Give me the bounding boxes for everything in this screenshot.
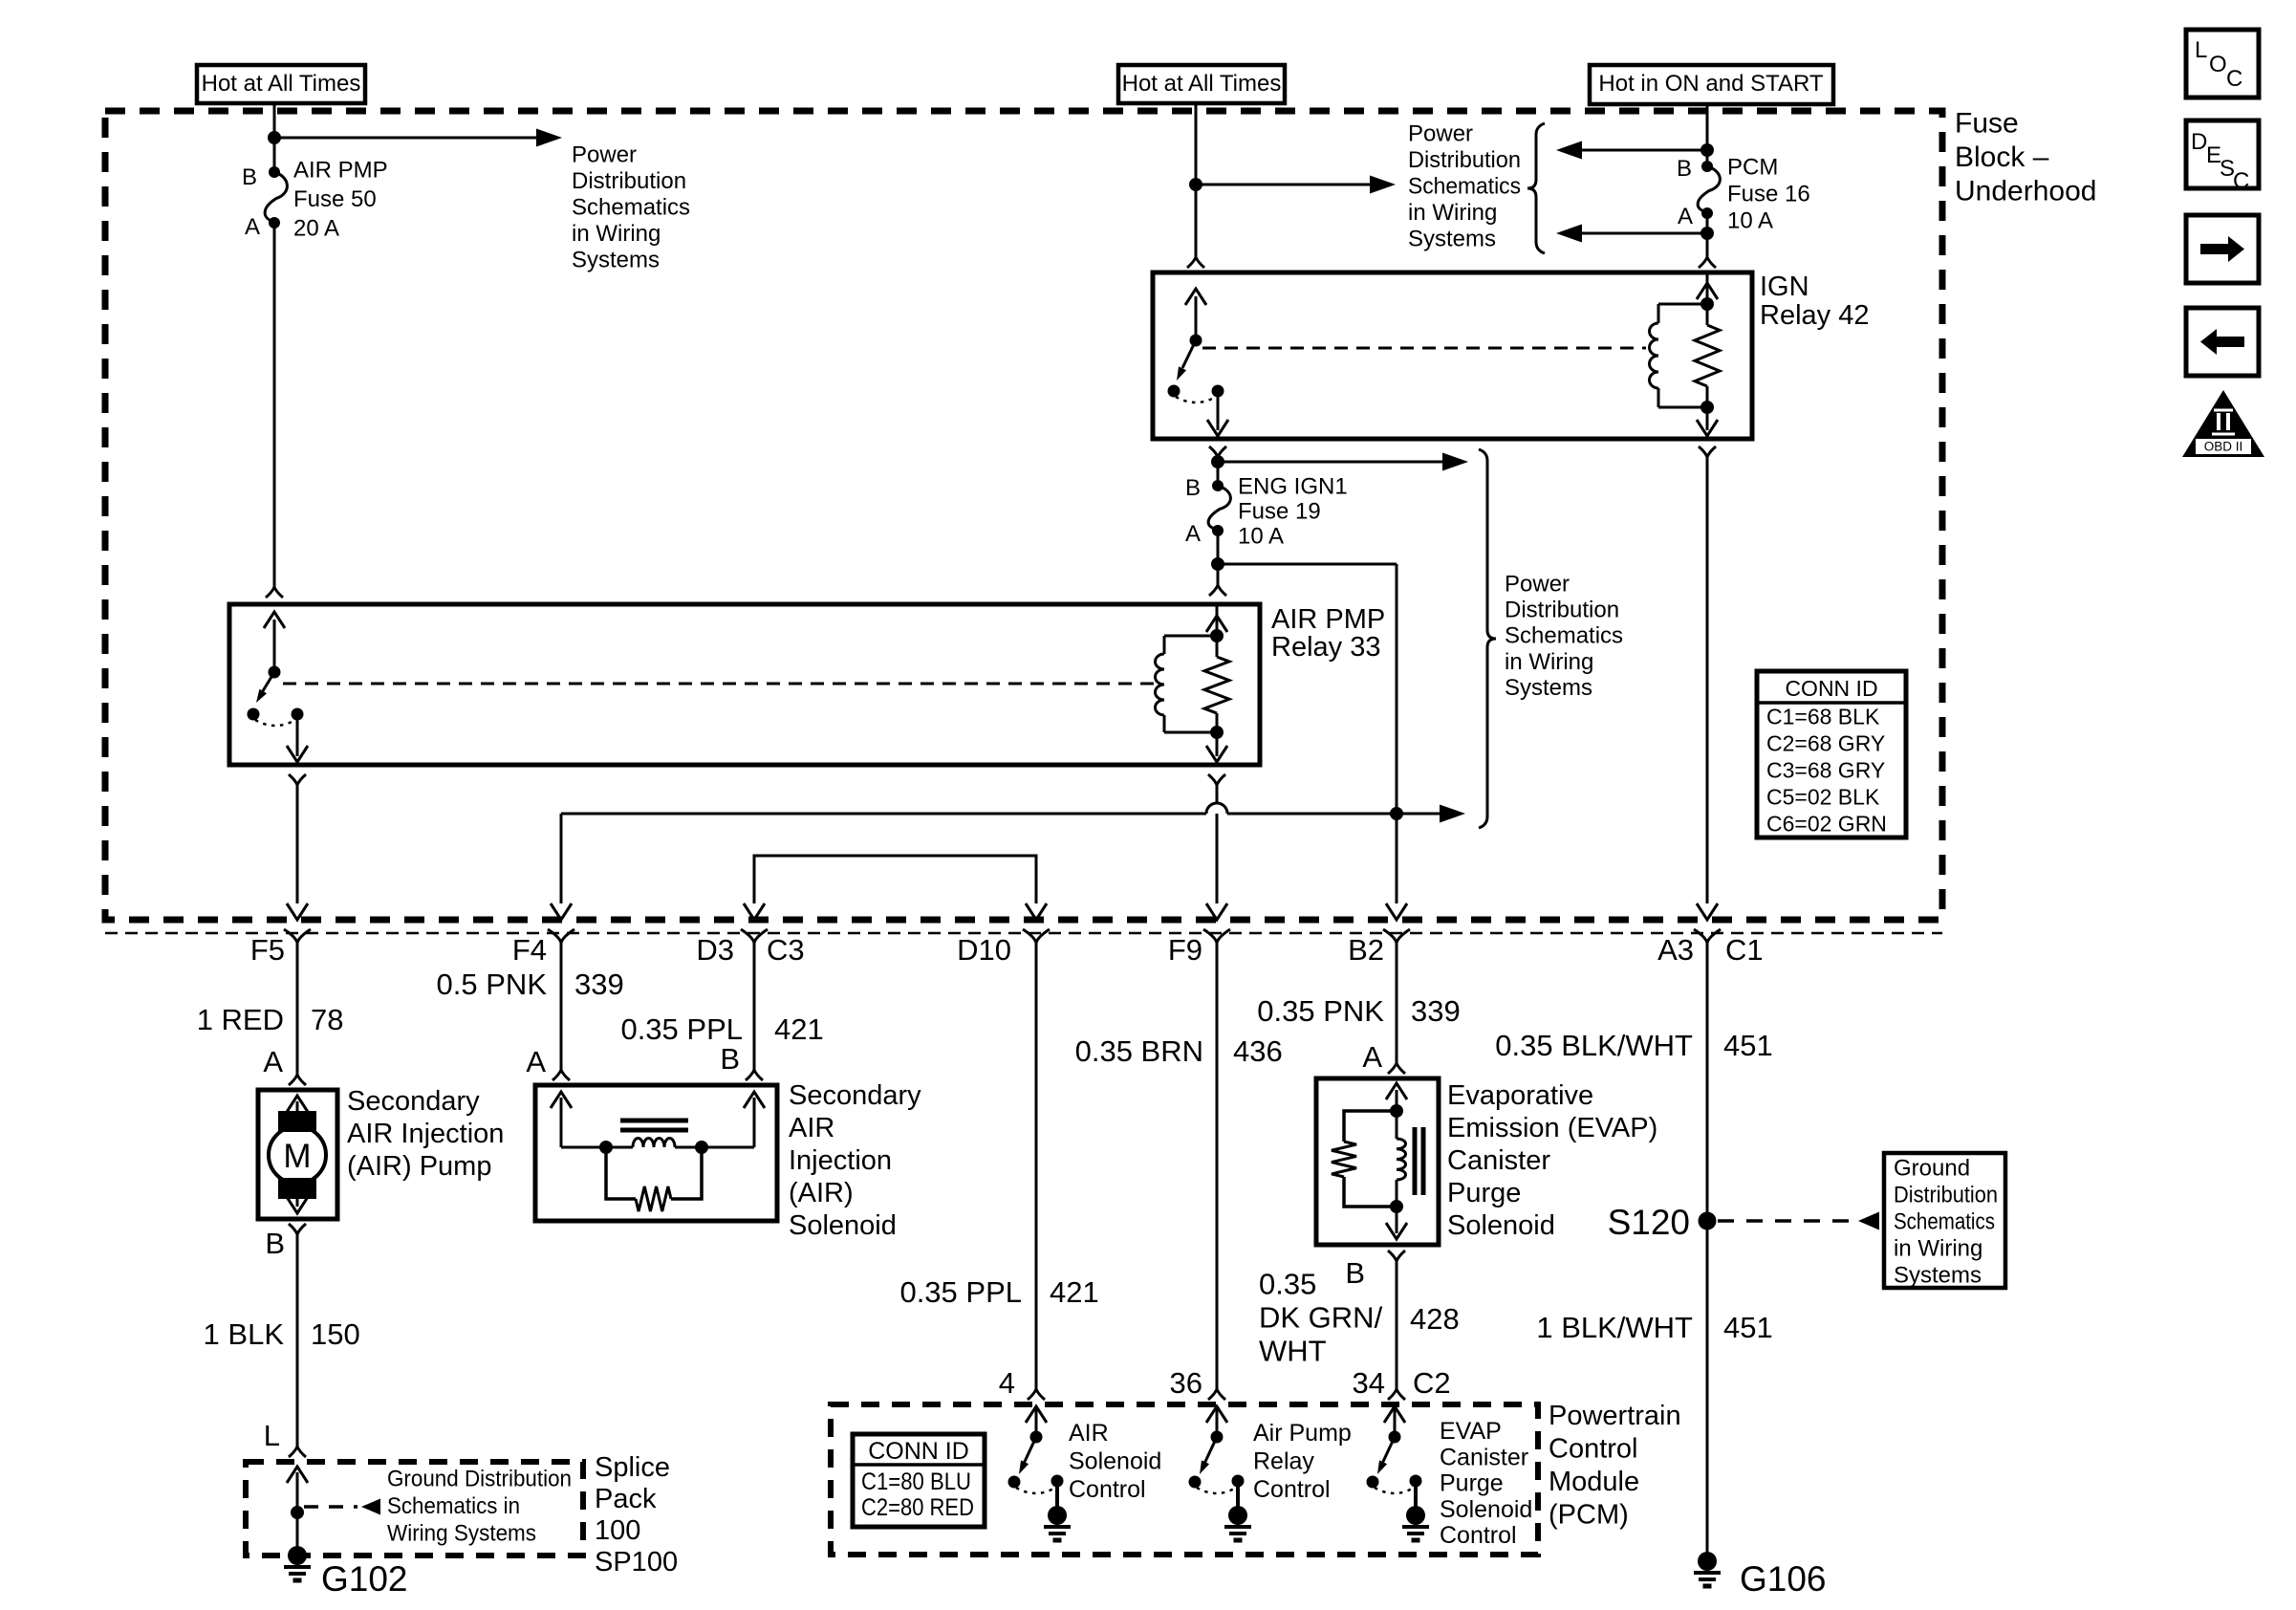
wire arrow D10 at border	[1026, 903, 1047, 920]
relay 42 switch common arrow	[1195, 296, 1198, 340]
svg-text:C1=80 BLU: C1=80 BLU	[861, 1469, 971, 1495]
wire fuse 19 A down to AIR PMP relay coil	[1217, 531, 1220, 585]
splice node SP100 junction	[291, 1506, 304, 1519]
svg-text:1 BLK: 1 BLK	[204, 1317, 285, 1351]
svg-text:O: O	[2209, 52, 2227, 77]
svg-text:451: 451	[1723, 1029, 1773, 1062]
relay 33 coil resistor	[1204, 657, 1229, 713]
svg-text:in Wiring: in Wiring	[1408, 200, 1497, 226]
net label box "Hot in ON and START"	[1590, 65, 1833, 104]
connector fork into IGN relay switch pin	[1187, 257, 1204, 268]
fuse F19 terminal A node	[1212, 525, 1224, 536]
solenoid L2 output arrow	[1396, 1207, 1398, 1233]
splice S120 dashed reference link	[1718, 1219, 1854, 1223]
connector fork at x=311	[284, 929, 311, 943]
svg-text:SP100: SP100	[595, 1547, 678, 1577]
net label box "Hot at All Times" (middle)	[1118, 65, 1285, 103]
svg-text:Emission (EVAP): Emission (EVAP)	[1447, 1113, 1657, 1143]
solenoid L2 coil winding	[1396, 1111, 1398, 1139]
relay 33 coil top node	[1210, 629, 1224, 642]
fuse F16 terminal B node	[1701, 161, 1713, 172]
solenoid L1 secondary AIR injection solenoid box	[535, 1085, 777, 1221]
connector fork into relay 33 coil pin	[1209, 585, 1226, 596]
svg-text:Control: Control	[1069, 1476, 1146, 1503]
fuse F50 terminal B node	[269, 166, 280, 178]
node junction below fuse 16	[1700, 227, 1714, 240]
node junction above fuse 19	[1211, 455, 1224, 468]
wire branch arrow to power distribution (middle top)	[1196, 184, 1371, 186]
svg-text:421: 421	[774, 1012, 824, 1046]
svg-text:0.35: 0.35	[1259, 1267, 1316, 1300]
relay 42 coil inductor	[1658, 303, 1707, 306]
svg-text:B: B	[1185, 475, 1201, 501]
connector fork at x=789	[741, 929, 768, 943]
svg-text:Ground Distribution: Ground Distribution	[387, 1466, 572, 1491]
svg-text:IGN: IGN	[1760, 272, 1809, 302]
wire arrow to power distribution from fuse16 A	[1579, 232, 1707, 235]
wire bus arrow to power distribution	[1440, 805, 1465, 823]
svg-text:(PCM): (PCM)	[1549, 1499, 1629, 1530]
svg-text:A3: A3	[1657, 933, 1694, 967]
solenoid L1 coil winding	[561, 1146, 633, 1149]
svg-text:C3=68 GRY: C3=68 GRY	[1766, 758, 1885, 783]
connector fork into relay 33 pin (switch in)	[266, 587, 283, 598]
splice node S120	[1699, 1212, 1717, 1230]
svg-text:AIR PMP: AIR PMP	[293, 157, 388, 183]
table CONN ID (PCM)	[853, 1434, 985, 1527]
solenoid L2 coil bottom node	[1390, 1200, 1403, 1213]
connector fork out of EVAP	[1388, 1251, 1405, 1261]
svg-text:Hot at All Times: Hot at All Times	[202, 71, 361, 97]
fuse F50 AIR PMP Fuse 50 20 A element	[265, 172, 287, 222]
svg-text:B: B	[265, 1227, 285, 1260]
connector fork into PCM pin 34	[1388, 1389, 1405, 1400]
svg-text:Control: Control	[1253, 1476, 1331, 1503]
svg-text:Module: Module	[1549, 1467, 1639, 1497]
splice dashed reference link	[304, 1505, 357, 1509]
connector fork out of AIR pump	[289, 1224, 306, 1234]
motor M1 input arrow	[296, 1101, 299, 1126]
connector fork into AIR solenoid B	[746, 1070, 763, 1080]
svg-text:B: B	[242, 164, 257, 190]
svg-text:in Wiring: in Wiring	[1894, 1235, 1982, 1261]
relay 42 switch armature	[1182, 340, 1196, 368]
svg-text:34: 34	[1353, 1366, 1385, 1400]
solenoid L2 EVAP canister purge box	[1316, 1078, 1439, 1245]
svg-text:Control: Control	[1549, 1433, 1638, 1464]
connector interface thin dashed line	[105, 932, 1942, 935]
wire bus from F4 corner to arrow (y=851)	[561, 813, 1440, 816]
svg-text:M: M	[283, 1138, 311, 1175]
solenoid L1 resistor loop	[606, 1147, 702, 1199]
svg-text:Distribution: Distribution	[1408, 147, 1521, 173]
svg-text:Schematics: Schematics	[1894, 1208, 1995, 1234]
connector fork into AIR solenoid A	[552, 1070, 570, 1080]
wire A3/C1 from IGN relay to border	[1699, 446, 1716, 457]
wire IGN relay out down to fuse 19	[1217, 457, 1220, 486]
svg-text:L: L	[2195, 37, 2207, 63]
splice pack input arrow	[296, 1472, 299, 1512]
relay 33 coil control dashed link	[283, 683, 1159, 685]
relay 33 coil inductor	[1164, 635, 1217, 638]
svg-text:C6=02 GRN: C6=02 GRN	[1766, 812, 1887, 837]
wire loop D3/C3 to D10 (y=895)	[754, 856, 1036, 903]
fuse F19 ENG IGN1 Fuse 19 10 A element	[1208, 486, 1230, 530]
solenoid L1 input arrow B	[753, 1098, 756, 1147]
solenoid L1 input arrow A	[560, 1098, 563, 1147]
PCM powertrain control module dashed box	[831, 1404, 1538, 1555]
svg-text:D3: D3	[696, 933, 734, 967]
svg-text:C: C	[2233, 168, 2249, 194]
svg-text:Power: Power	[1408, 120, 1473, 146]
svg-text:Schematics: Schematics	[572, 194, 690, 220]
svg-text:Pack: Pack	[595, 1484, 657, 1514]
PCM switch AIR solenoid control driver	[1035, 1406, 1038, 1437]
relay 33 switch common arrow	[273, 620, 276, 672]
svg-text:Hot at All Times: Hot at All Times	[1122, 71, 1282, 97]
icon box DESC	[2186, 120, 2259, 188]
svg-text:339: 339	[574, 968, 624, 1001]
svg-text:D: D	[2191, 129, 2207, 155]
svg-text:Distribution: Distribution	[1894, 1182, 1998, 1207]
svg-text:36: 36	[1170, 1366, 1202, 1400]
node junction on wire 2	[1189, 178, 1202, 191]
fuse block underhood dashed border	[105, 111, 1942, 920]
node junction bus and B2 branch	[1390, 807, 1403, 820]
brace for power distribution references (top right)	[1527, 123, 1545, 253]
svg-text:451: 451	[1723, 1311, 1773, 1344]
svg-text:A: A	[263, 1045, 283, 1078]
svg-text:OBD II: OBD II	[2204, 440, 2243, 454]
relay 33 switch pivot node	[269, 666, 281, 679]
svg-text:Distribution: Distribution	[1505, 598, 1619, 623]
fuse F16 terminal A node	[1701, 207, 1713, 219]
svg-text:Purge: Purge	[1447, 1178, 1521, 1208]
relay 42 switch dotted travel arc	[1176, 397, 1216, 402]
wire arrow to power distribution from fuse16 B	[1579, 149, 1707, 152]
svg-text:421: 421	[1050, 1275, 1099, 1309]
connector fork out of IGN relay switch	[1209, 446, 1226, 457]
wire branch arrow right to power distribution (mid)	[1218, 461, 1443, 464]
motor M1 armature circle	[269, 1126, 326, 1184]
svg-text:EVAP: EVAP	[1440, 1418, 1502, 1445]
svg-text:A: A	[1678, 204, 1693, 229]
svg-text:Fuse 16: Fuse 16	[1727, 181, 1810, 207]
connector fork at x=1273	[1203, 929, 1230, 943]
wire B2 drop to border	[1396, 814, 1398, 903]
svg-text:100: 100	[595, 1515, 640, 1546]
connector fork at x=587	[548, 929, 574, 943]
svg-text:Schematics: Schematics	[1505, 623, 1623, 649]
solenoid L2 resistor loop	[1344, 1111, 1397, 1207]
relay 33 switch dotted travel arc	[255, 720, 295, 726]
svg-text:10 A: 10 A	[1727, 207, 1773, 233]
svg-text:C2=80 RED: C2=80 RED	[861, 1494, 974, 1521]
svg-text:Control: Control	[1440, 1522, 1517, 1549]
svg-text:C2=68 GRY: C2=68 GRY	[1766, 731, 1885, 756]
svg-text:AIR Injection: AIR Injection	[347, 1119, 504, 1149]
relay 42 coil input arrow	[1706, 272, 1709, 304]
wire fuse 16 A to IGN relay coil	[1706, 213, 1709, 257]
fuse F19 terminal B node	[1212, 480, 1224, 491]
solenoid L1 coil nodes	[599, 1141, 613, 1154]
svg-text:F4: F4	[512, 933, 547, 967]
wire relay 33 out down to F5	[296, 785, 299, 903]
svg-text:C2: C2	[1413, 1366, 1451, 1400]
solenoid L2 core lines	[1413, 1127, 1418, 1195]
svg-text:G102: G102	[321, 1559, 408, 1599]
wire D10 to PCM pin 4	[1035, 943, 1038, 1389]
relay 33 switch contact nodes	[248, 708, 260, 721]
svg-text:Wiring Systems: Wiring Systems	[387, 1521, 536, 1547]
svg-text:Block –: Block –	[1955, 141, 2049, 173]
wire C3 to AIR solenoid	[753, 943, 756, 1070]
svg-text:PCM: PCM	[1727, 154, 1778, 180]
svg-text:A: A	[1185, 521, 1201, 547]
fuse F50 terminal A node	[269, 217, 280, 228]
svg-text:436: 436	[1233, 1034, 1283, 1068]
svg-text:10 A: 10 A	[1238, 523, 1284, 549]
connector fork into PCM pin 4	[1028, 1389, 1045, 1400]
svg-text:Fuse: Fuse	[1955, 108, 2019, 140]
svg-text:Hot in ON and START: Hot in ON and START	[1598, 71, 1824, 97]
node junction on wire 1	[268, 131, 281, 144]
svg-text:0.35 PPL: 0.35 PPL	[899, 1275, 1022, 1309]
wire F9 below hop to PCM border	[1216, 824, 1219, 903]
relay 42 switch contact nodes	[1168, 385, 1180, 398]
svg-text:Canister: Canister	[1447, 1145, 1550, 1176]
svg-text:Solenoid: Solenoid	[789, 1210, 897, 1241]
svg-text:Schematics: Schematics	[1408, 173, 1521, 199]
svg-text:G106: G106	[1740, 1559, 1827, 1599]
svg-text:Fuse 19: Fuse 19	[1238, 498, 1321, 524]
icon OBD II warning triangle	[2182, 390, 2264, 457]
wire hot-in-on-start down to fuse 16	[1706, 104, 1709, 166]
connector fork into PCM pin 36	[1208, 1389, 1225, 1400]
svg-text:Systems: Systems	[572, 247, 660, 272]
connector fork out of relay 33 coil (F9 wire)	[1208, 774, 1225, 785]
fuse F16 PCM Fuse 16 10 A element	[1698, 166, 1720, 212]
svg-text:1 BLK/WHT: 1 BLK/WHT	[1536, 1311, 1693, 1344]
svg-text:0.35 PPL: 0.35 PPL	[620, 1012, 743, 1046]
connector fork into AIR pump	[289, 1075, 306, 1085]
svg-text:Splice: Splice	[595, 1452, 670, 1483]
table CONN ID (underhood fuse block)	[1757, 671, 1906, 838]
net label box "Hot at All Times" (left)	[197, 65, 365, 103]
svg-text:0.35 BLK/WHT: 0.35 BLK/WHT	[1495, 1029, 1693, 1062]
svg-text:Schematics in: Schematics in	[387, 1493, 520, 1519]
svg-text:in Wiring: in Wiring	[572, 221, 661, 247]
svg-text:C5=02 BLK: C5=02 BLK	[1766, 785, 1880, 810]
svg-text:ENG IGN1: ENG IGN1	[1238, 473, 1348, 499]
svg-text:AIR PMP: AIR PMP	[1271, 604, 1385, 635]
svg-text:Evaporative: Evaporative	[1447, 1080, 1593, 1111]
svg-text:1 RED: 1 RED	[197, 1003, 284, 1036]
svg-text:in Wiring: in Wiring	[1505, 649, 1593, 675]
svg-text:C3: C3	[767, 933, 805, 967]
connector fork into splice pack	[289, 1447, 306, 1457]
connector fork at x=1786	[1694, 929, 1721, 943]
svg-text:Power: Power	[572, 141, 637, 167]
wire F4 drop from bus	[560, 814, 563, 903]
svg-text:Ground: Ground	[1894, 1155, 1970, 1181]
svg-text:20 A: 20 A	[293, 215, 339, 241]
svg-text:Relay 42: Relay 42	[1760, 300, 1869, 331]
svg-text:0.35 PNK: 0.35 PNK	[1257, 994, 1384, 1028]
svg-text:Systems: Systems	[1894, 1262, 1982, 1288]
wire splice to ground G102	[296, 1512, 299, 1556]
svg-text:Purge: Purge	[1440, 1470, 1504, 1497]
svg-text:Solenoid: Solenoid	[1447, 1210, 1555, 1241]
svg-text:L: L	[264, 1419, 280, 1452]
wire F4 to AIR solenoid	[560, 943, 563, 1070]
PCM switch air pump relay control driver	[1216, 1406, 1219, 1437]
relay 42 switch output arrow	[1217, 391, 1220, 430]
solenoid L2 input arrow	[1396, 1090, 1398, 1111]
svg-text:Injection: Injection	[789, 1145, 892, 1176]
svg-text:Relay: Relay	[1253, 1448, 1314, 1475]
svg-text:F5: F5	[250, 933, 285, 967]
svg-text:0.5 PNK: 0.5 PNK	[437, 968, 548, 1001]
box ground distribution schematics (S120)	[1884, 1153, 2005, 1288]
relay 33 coil output arrow	[1216, 732, 1219, 756]
solenoid L2 coil top node	[1390, 1104, 1403, 1118]
svg-text:Systems: Systems	[1408, 226, 1496, 251]
svg-text:CONN ID: CONN ID	[1785, 676, 1877, 701]
connector fork into EVAP A	[1388, 1063, 1405, 1074]
svg-text:C: C	[2226, 66, 2242, 92]
svg-text:S120: S120	[1608, 1203, 1690, 1242]
svg-text:0.35 BRN: 0.35 BRN	[1075, 1034, 1203, 1068]
svg-text:B: B	[720, 1042, 740, 1076]
wire C1 down from border	[1706, 943, 1709, 1556]
connector fork at x=1084	[1023, 929, 1050, 943]
svg-text:Solenoid: Solenoid	[1069, 1448, 1161, 1475]
svg-text:C1: C1	[1725, 933, 1764, 967]
brace for power distribution references (middle right)	[1479, 449, 1496, 828]
svg-text:Powertrain: Powertrain	[1549, 1401, 1681, 1431]
motor M1 secondary AIR injection pump box	[258, 1090, 337, 1219]
connector fork into IGN relay coil pin	[1699, 257, 1716, 268]
icon box back arrow	[2186, 308, 2259, 376]
svg-text:AIR: AIR	[789, 1113, 834, 1143]
wire relay 33 coil down to bus hop	[1216, 785, 1219, 803]
connector fork at x=1461	[1383, 929, 1410, 943]
svg-text:Solenoid: Solenoid	[1440, 1496, 1532, 1523]
motor M1 output arrow	[296, 1184, 299, 1207]
svg-text:(AIR) Pump: (AIR) Pump	[347, 1151, 491, 1182]
svg-text:78: 78	[311, 1003, 343, 1036]
svg-text:Canister: Canister	[1440, 1444, 1528, 1470]
svg-text:AIR: AIR	[1069, 1420, 1109, 1447]
svg-text:4: 4	[999, 1366, 1015, 1400]
svg-text:Distribution: Distribution	[572, 168, 686, 194]
wire arrow C3 at border	[744, 903, 765, 920]
svg-text:Relay 33: Relay 33	[1271, 632, 1380, 663]
wire hop over bus at F9 wire	[1206, 803, 1227, 824]
wire fuse 50 A to AIR PMP relay 33	[273, 223, 276, 587]
connector fork out of relay 33 switch (F5 wire)	[289, 774, 306, 785]
svg-text:A: A	[1362, 1040, 1382, 1074]
relay K33 AIR PMP Relay 33 box	[229, 604, 1260, 765]
motor M1 brushes	[278, 1111, 316, 1132]
svg-text:B2: B2	[1348, 933, 1384, 967]
svg-text:Secondary: Secondary	[789, 1080, 921, 1111]
relay 42 coil top node	[1700, 297, 1714, 311]
svg-text:Power: Power	[1505, 571, 1570, 597]
relay K42 IGN Relay 42 box	[1153, 272, 1752, 439]
svg-text:Systems: Systems	[1505, 675, 1592, 701]
wire B2 to EVAP solenoid	[1396, 943, 1398, 1063]
wire F9 to PCM pin 36	[1216, 943, 1219, 1389]
relay 42 coil control dashed link	[1202, 347, 1646, 350]
svg-text:WHT: WHT	[1259, 1334, 1327, 1367]
relay 42 coil output arrow	[1706, 407, 1709, 430]
relay 42 coil bottom node	[1700, 401, 1714, 414]
relay 33 switch output arrow	[296, 714, 299, 756]
svg-text:Fuse 50: Fuse 50	[293, 186, 377, 212]
wire hot-at-all-times 1 down to fuse 50	[273, 103, 276, 172]
icon box LOC	[2186, 30, 2259, 98]
svg-text:Secondary: Secondary	[347, 1086, 480, 1117]
svg-text:Air Pump: Air Pump	[1253, 1420, 1352, 1447]
icon box forward arrow	[2186, 215, 2259, 283]
svg-text:C1=68 BLK: C1=68 BLK	[1766, 705, 1880, 729]
splice pack SP100 dashed box	[246, 1462, 583, 1556]
svg-text:D10: D10	[957, 933, 1011, 967]
wire branch right from fuse 19 to B2 feed	[1218, 563, 1397, 566]
svg-text:(AIR): (AIR)	[789, 1178, 854, 1208]
relay 33 coil bottom node	[1210, 726, 1224, 739]
svg-text:B: B	[1677, 156, 1692, 182]
relay 42 coil resistor	[1695, 325, 1720, 386]
svg-text:CONN ID: CONN ID	[868, 1438, 969, 1465]
PCM switch EVAP purge control driver	[1394, 1406, 1397, 1437]
svg-text:339: 339	[1411, 994, 1461, 1028]
svg-text:F9: F9	[1168, 933, 1202, 967]
node junction above fuse 16	[1700, 143, 1714, 157]
wire AIR pump B to splice pack	[296, 1234, 299, 1447]
svg-text:A: A	[526, 1045, 546, 1078]
svg-text:Underhood: Underhood	[1955, 176, 2096, 207]
wire hot-at-all-times 2 down to IGN relay	[1195, 103, 1198, 257]
svg-text:428: 428	[1410, 1302, 1460, 1336]
relay 33 switch armature	[261, 672, 274, 694]
node junction below fuse 19	[1211, 557, 1224, 571]
wire F5 to AIR pump	[296, 943, 299, 1075]
wire branch arrow to power distribution (left)	[274, 137, 537, 140]
svg-text:150: 150	[311, 1317, 360, 1351]
relay 42 switch pivot node	[1190, 335, 1202, 347]
svg-text:B: B	[1345, 1256, 1365, 1290]
svg-text:A: A	[245, 214, 260, 240]
svg-text:DK GRN/: DK GRN/	[1259, 1300, 1383, 1334]
wire EVAP B to PCM pin 34	[1396, 1261, 1398, 1389]
solenoid L1 core lines	[620, 1119, 688, 1123]
ground G102 symbol	[288, 1546, 307, 1565]
ground G106 symbol	[1698, 1552, 1717, 1571]
relay 33 coil input arrow	[1216, 604, 1219, 636]
